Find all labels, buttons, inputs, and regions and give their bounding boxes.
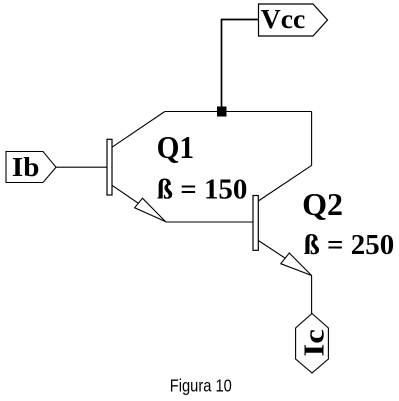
svg-text:Ib: Ib bbox=[12, 152, 40, 182]
svg-text:Vcc: Vcc bbox=[261, 3, 306, 34]
svg-text:ß = 150: ß = 150 bbox=[157, 174, 248, 205]
svg-text:Figura 10: Figura 10 bbox=[170, 376, 232, 396]
svg-text:Ic: Ic bbox=[299, 329, 330, 357]
svg-text:Q1: Q1 bbox=[157, 130, 195, 165]
svg-text:Q2: Q2 bbox=[302, 187, 343, 222]
svg-text:ß = 250: ß = 250 bbox=[304, 230, 395, 261]
